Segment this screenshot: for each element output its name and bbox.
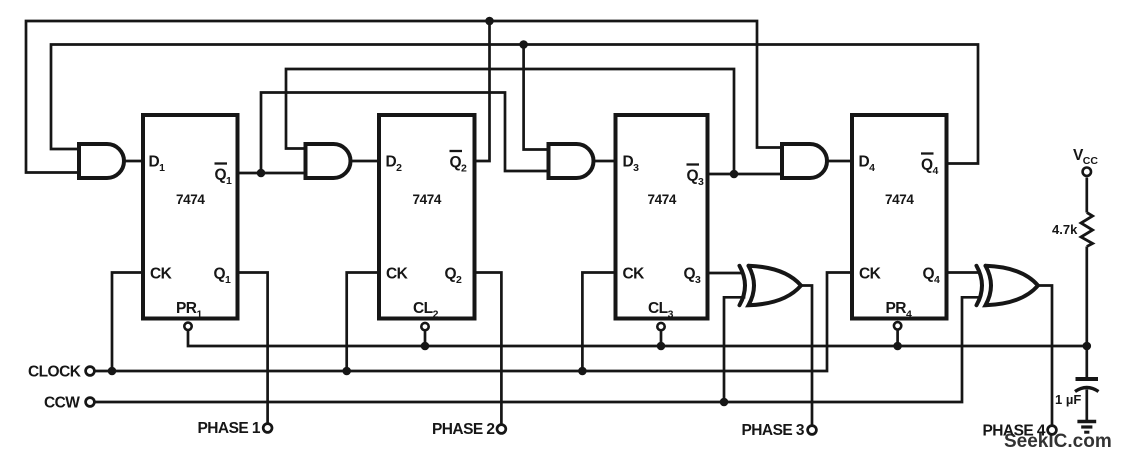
AND gate G3 bbox=[549, 144, 594, 178]
overline for Q4-bar bbox=[921, 152, 934, 154]
bubble: CL2 clear bbox=[421, 323, 428, 330]
overline for Q1-bar bbox=[215, 162, 228, 164]
wire: Q3-bar output to G4 lower input bbox=[708, 173, 783, 176]
junction: bus / CL3 bbox=[657, 342, 666, 351]
wire: Q3 output to XOR3 bbox=[708, 272, 743, 275]
junction: Q4-bar rail / G3 branch bbox=[519, 40, 528, 49]
wire: Q2-bar output riser bbox=[475, 21, 490, 161]
capacitor C1 top plate bbox=[1076, 377, 1099, 381]
svg-text:CCW: CCW bbox=[44, 395, 80, 412]
wire: Q4-bar feedback rail to G1 upper input bbox=[51, 45, 978, 164]
flip-flop U2 7474 bbox=[379, 115, 475, 319]
wire: CK2 riser bbox=[347, 273, 379, 372]
junction: top rail / Q2-bar riser bbox=[485, 17, 494, 26]
XOR gate X1 bbox=[740, 266, 802, 305]
AND gate G2 bbox=[306, 144, 351, 178]
wire: XOR4 output to PHASE 4 bbox=[1038, 286, 1052, 425]
junction: bus / PR4 bbox=[893, 342, 902, 351]
junction: CLOCK / CK1 bbox=[108, 367, 117, 376]
bubble: PR4 preset bbox=[894, 322, 901, 329]
wire: G3 output to D3 bbox=[594, 160, 616, 163]
wire: Q4 output to XOR4 bbox=[947, 271, 980, 274]
svg-text:CK: CK bbox=[859, 266, 882, 283]
svg-text:7474: 7474 bbox=[176, 192, 205, 207]
capacitor C1 curved plate bbox=[1075, 388, 1099, 392]
wire: Q2 output to PHASE 2 bbox=[475, 273, 502, 424]
junction: bus / CL2 bbox=[421, 342, 430, 351]
junction: Q3-bar node bbox=[730, 170, 739, 179]
overline for Q3-bar bbox=[687, 163, 700, 165]
AND gate G1 bbox=[79, 144, 124, 178]
wire: CL3 bubble riser bbox=[660, 332, 663, 347]
wire: CK1 riser bbox=[112, 273, 143, 372]
wire: CLOCK bus to CK4 bbox=[95, 273, 852, 372]
svg-text:7474: 7474 bbox=[885, 192, 914, 207]
terminal: PHASE 2 output bbox=[497, 425, 506, 434]
wire: Q3-bar feedback rail to G2 upper input bbox=[286, 69, 734, 174]
junction: CCW / XOR3 input bbox=[720, 398, 729, 407]
wire: Vcc to resistor bbox=[1085, 178, 1088, 213]
wire: Q2-bar top feedback rail to G1 lower input and G4 upper input bbox=[26, 21, 782, 173]
svg-text:PHASE 2: PHASE 2 bbox=[432, 421, 494, 438]
svg-text:1 µF: 1 µF bbox=[1055, 392, 1081, 407]
wire: resistor to RC node to capacitor bbox=[1085, 247, 1088, 379]
resistor R1 4.7k bbox=[1081, 213, 1093, 247]
wire: XOR3 lower input riser bbox=[724, 297, 744, 402]
wire: Q1-bar feedback to G3 lower input bbox=[261, 93, 549, 174]
junction: Q1-bar node bbox=[257, 169, 266, 178]
wire: XOR3 output to PHASE 3 bbox=[801, 286, 812, 425]
svg-text:PHASE 3: PHASE 3 bbox=[742, 422, 805, 439]
svg-text:CK: CK bbox=[386, 266, 409, 283]
wire: G1 output to D1 bbox=[124, 160, 143, 163]
terminal: PHASE 4 output bbox=[1048, 426, 1057, 435]
wire: CCW bus to XOR4 lower input bbox=[95, 297, 980, 402]
power: Vcc terminal bbox=[1083, 168, 1091, 176]
terminal: CCW input bbox=[86, 398, 95, 407]
flip-flop U3 7474 bbox=[616, 115, 708, 319]
wire: Q1 output to PHASE 1 bbox=[238, 273, 268, 423]
svg-text:7474: 7474 bbox=[413, 192, 442, 207]
wire: G2 output to D2 bbox=[351, 160, 380, 163]
svg-text:7474: 7474 bbox=[648, 192, 677, 207]
svg-text:CLOCK: CLOCK bbox=[28, 364, 82, 381]
svg-text:SeekIC.com: SeekIC.com bbox=[1004, 431, 1112, 452]
terminal: PHASE 1 output bbox=[263, 424, 272, 433]
wire: branch to G3 upper input bbox=[524, 45, 549, 150]
bubble: CL3 clear bbox=[657, 323, 664, 330]
wire: Q1-bar output to G2 lower input bbox=[238, 172, 306, 175]
svg-text:PHASE 1: PHASE 1 bbox=[198, 420, 261, 437]
wire: PR4 bubble riser bbox=[896, 331, 899, 347]
junction: bus / RC node bbox=[1083, 342, 1092, 351]
wire: CL2 bubble riser bbox=[424, 332, 427, 347]
wire: CK3 riser bbox=[582, 273, 615, 372]
wire: preset-clear bus PR1 CL2 CL3 PR4 bbox=[188, 331, 1087, 346]
junction: CLOCK / CK3 bbox=[578, 367, 587, 376]
wire: capacitor to ground bbox=[1085, 390, 1088, 422]
junction: CLOCK / CK2 bbox=[342, 367, 351, 376]
ground symbol bbox=[1077, 422, 1096, 433]
svg-text:CK: CK bbox=[623, 266, 646, 283]
terminal: CLOCK input bbox=[86, 367, 95, 376]
wire: G4 output to D4 bbox=[827, 160, 852, 163]
XOR gate X2 bbox=[977, 266, 1039, 305]
AND gate G4 bbox=[782, 144, 827, 178]
terminal: PHASE 3 output bbox=[808, 426, 817, 435]
bubble: PR1 preset bbox=[184, 323, 191, 330]
svg-text:CK: CK bbox=[150, 266, 173, 283]
svg-text:4.7k: 4.7k bbox=[1052, 222, 1078, 237]
flip-flop U4 7474 bbox=[852, 115, 947, 319]
flip-flop U1 7474 bbox=[143, 115, 238, 319]
overline for Q2-bar bbox=[450, 150, 463, 152]
